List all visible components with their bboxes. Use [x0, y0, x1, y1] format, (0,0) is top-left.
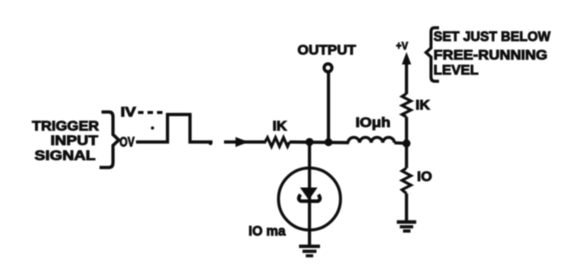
wire resistor to inductor: [290, 140, 350, 144]
resistor 1K vertical: [402, 94, 411, 118]
junction node at tunnel-diode branch: [306, 138, 314, 146]
wire node down into tunnel diode: [308, 142, 311, 245]
brace right of trigger label: [100, 112, 119, 168]
wire node down to resistor 10: [405, 143, 408, 168]
+V supply arrow: [402, 52, 411, 94]
ground (right branch): [397, 222, 416, 231]
ground (below tunnel diode): [299, 246, 320, 256]
svg-text:LEVEL: LEVEL: [434, 62, 479, 78]
svg-text:IK: IK: [416, 98, 431, 113]
svg-text:SIGNAL: SIGNAL: [35, 147, 97, 163]
wire inductor to right node: [394, 141, 406, 145]
note SET JUST BELOW FREE-RUNNING LEVEL: [434, 28, 552, 78]
svg-text:IV: IV: [121, 105, 137, 120]
svg-text:IO ma: IO ma: [249, 224, 286, 239]
tunnel diode cathode bar: [299, 195, 320, 202]
svg-text:+V: +V: [396, 41, 409, 53]
dashed 1V level line: [138, 111, 163, 114]
brace left of note text: [426, 28, 439, 81]
junction node at output branch: [325, 138, 333, 146]
svg-text:SET JUST BELOW: SET JUST BELOW: [434, 28, 552, 44]
svg-text:IK: IK: [273, 119, 288, 134]
tunnel diode circle: [279, 168, 341, 230]
label TRIGGER INPUT SIGNAL: [32, 118, 99, 164]
trigger pulse waveform: [136, 115, 213, 143]
svg-text:IOμh: IOμh: [356, 114, 391, 130]
wire resistor 10 to ground: [405, 194, 408, 222]
svg-text:OV: OV: [120, 135, 135, 150]
tunnel diode anode triangle: [300, 188, 318, 201]
inductor 10uh: [348, 137, 394, 142]
output terminal circle: [324, 64, 332, 72]
wire with arrow into circuit: [224, 137, 266, 147]
svg-text:FREE-RUNNING: FREE-RUNNING: [434, 46, 548, 62]
svg-text:OUTPUT: OUTPUT: [298, 42, 357, 58]
junction node right branch: [403, 139, 411, 147]
resistor 1K horizontal: [265, 138, 290, 147]
resistor 10 vertical: [402, 168, 411, 194]
wire output terminal down to node: [327, 73, 330, 143]
wire resistor to node: [405, 117, 408, 143]
svg-text:IO: IO: [417, 169, 432, 184]
svg-text:INPUT: INPUT: [51, 132, 99, 148]
stray dot mark: [151, 126, 154, 129]
waveform end blob: [209, 142, 213, 146]
